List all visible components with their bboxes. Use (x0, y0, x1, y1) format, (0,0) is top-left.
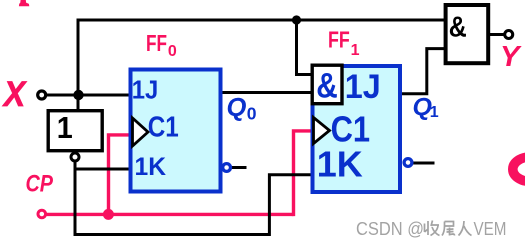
svg-text:1: 1 (351, 42, 360, 59)
wire CP bottom horizontal (clock bus) (46, 213, 294, 216)
svg-text:&: & (449, 12, 467, 44)
wire CP branch up to FF1 C1 (294, 131, 312, 216)
svg-text:1: 1 (430, 104, 439, 121)
svg-text:1: 1 (57, 110, 73, 145)
wire Q0 from FF0 to AND box at FF1 1J (221, 91, 313, 94)
terminal X (38, 91, 46, 99)
svg-text:CSDN @: CSDN @ (356, 218, 424, 239)
svg-text:X: X (2, 75, 28, 114)
svg-text:0: 0 (247, 104, 257, 124)
svg-text:FF: FF (328, 27, 350, 53)
bubble FF0 inverted output (223, 164, 231, 172)
watermark glyph ren (459, 221, 472, 236)
watermark glyph shou (425, 221, 440, 236)
wire from node X up and across to AND gate input A (78, 20, 444, 110)
AND gate box at FF1 1J input (312, 65, 342, 104)
watermark glyph wei (442, 222, 455, 236)
svg-text:Q: Q (227, 94, 247, 122)
wire stub FF0 inverted output (231, 166, 246, 169)
svg-text:C1: C1 (148, 111, 179, 143)
junction dot node X (73, 90, 83, 100)
svg-text:CP: CP (26, 170, 54, 197)
wire inverter output down (74, 162, 77, 237)
partial glyph top-left (19, 0, 29, 6)
FF1 clock triangle (314, 118, 330, 144)
junction dot CP (103, 209, 114, 220)
bubble inverter output (71, 153, 79, 161)
AND gate U1 box top right (446, 5, 489, 63)
wire stub AND gate output (490, 33, 504, 36)
FF0 clock triangle (133, 118, 149, 146)
flip-flop FF0 body (131, 70, 221, 192)
svg-text:0: 0 (168, 43, 177, 60)
svg-text:1J: 1J (132, 74, 159, 104)
terminal Y (505, 31, 513, 39)
svg-text:Y: Y (500, 41, 522, 73)
inverter gate box (1) (48, 111, 102, 151)
svg-text:FF: FF (146, 30, 167, 56)
wire inverter output to FF0 1K (75, 168, 131, 171)
bubble FF1 inverted output (404, 159, 412, 167)
wire X input to FF0 1J (46, 94, 131, 97)
wire stub FF1 inverted output (413, 162, 435, 165)
svg-text:&: & (316, 67, 338, 106)
wire CP branch up to FF0 C1 (109, 135, 132, 216)
terminal CP (38, 210, 46, 218)
flip-flop FF1 body (313, 66, 401, 192)
wire Q1 up to AND gate input B (400, 49, 445, 94)
wire from top junction down to AND box at FF1 (297, 19, 314, 75)
svg-text:1K: 1K (135, 153, 167, 181)
svg-text:1K: 1K (317, 144, 363, 185)
junction dot top (292, 15, 301, 24)
partial glyph right edge (513, 157, 525, 181)
svg-text:VEM: VEM (474, 218, 507, 239)
svg-text:1J: 1J (345, 68, 381, 106)
wire bottom run to FF1 1K (74, 175, 314, 235)
